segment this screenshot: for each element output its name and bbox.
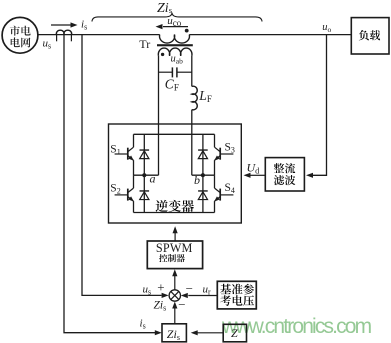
inverter box outline bbox=[109, 124, 242, 223]
svg-text:www.cntronics.com: www.cntronics.com bbox=[221, 315, 372, 338]
wire+arrow summing junction to SPWM bbox=[174, 275, 176, 290]
wire u_s sense down-left side bbox=[82, 35, 162, 296]
brace Z i_s over line bbox=[92, 13, 262, 22]
reference voltage box 基准参考电压 bbox=[217, 281, 256, 309]
arrow u_co (compensation voltage) bbox=[163, 26, 188, 28]
IGBT S4 bbox=[219, 189, 221, 201]
svg-text:is: is bbox=[81, 19, 87, 32]
label 逆变器 (inverter) bbox=[156, 200, 168, 212]
arrow into rectifier right side bbox=[306, 173, 313, 178]
svg-text:SPWM: SPWM bbox=[156, 241, 193, 255]
wire u_r from reference box bbox=[188, 295, 217, 297]
svg-text:ur: ur bbox=[203, 284, 212, 297]
wire: secondary left leg down to node a bbox=[158, 56, 160, 175]
wire: secondary right leg to filter inductor bbox=[191, 56, 193, 87]
svg-text:S1: S1 bbox=[110, 143, 120, 156]
load box 负载 bbox=[351, 18, 389, 54]
svg-text:+: + bbox=[157, 279, 164, 294]
svg-text:S4: S4 bbox=[225, 182, 235, 195]
arrow i_s into Zi_s block bbox=[155, 330, 162, 335]
svg-text:S2: S2 bbox=[110, 182, 120, 195]
svg-text:a: a bbox=[150, 172, 156, 186]
svg-text:S3: S3 bbox=[225, 141, 235, 154]
svg-text:is: is bbox=[140, 318, 146, 331]
wire: main AC line, source to transformer primary bbox=[38, 34, 160, 36]
polarity dot primary bbox=[185, 29, 189, 33]
arrow SPWM to inverter bbox=[174, 233, 176, 241]
svg-text:uo: uo bbox=[322, 22, 331, 34]
arrow U_d into inverter bbox=[251, 174, 266, 176]
node b junction dot bbox=[201, 173, 205, 177]
arrow Z block to Zi_s block bbox=[198, 332, 224, 334]
transformer Tr primary winding bbox=[160, 35, 190, 43]
svg-text:Z: Z bbox=[231, 326, 238, 340]
IGBT S2 bbox=[127, 189, 129, 201]
svg-text:Zis: Zis bbox=[157, 1, 172, 16]
svg-text:us: us bbox=[43, 38, 52, 51]
wire Zi_s block up to junction bbox=[174, 308, 176, 324]
IGBT S3 bbox=[219, 148, 221, 160]
wire: node a rail bbox=[134, 174, 159, 176]
wire i_s sense down-left side bbox=[64, 35, 156, 333]
AC source 市电电网 bbox=[2, 17, 38, 53]
inductor L_F coil bbox=[192, 86, 197, 110]
svg-text:b: b bbox=[194, 173, 200, 187]
SPWM controller box bbox=[147, 241, 202, 269]
arrow i_s direction on line bbox=[51, 24, 71, 26]
wire: H-bridge top rail bbox=[134, 133, 215, 135]
transformer core bar bbox=[157, 44, 193, 46]
diode D4 antiparallel to S4 bbox=[202, 175, 204, 212]
current transformer pickup bumps bbox=[56, 30, 71, 34]
diode D2 antiparallel to S2 bbox=[143, 175, 145, 212]
wire: node b rail bbox=[192, 174, 215, 176]
wire: C_F branch left bbox=[159, 71, 173, 73]
svg-text:Ud: Ud bbox=[247, 161, 261, 176]
rectifier-filter box 整流滤波 bbox=[265, 158, 304, 191]
gain block Z i_s box bbox=[162, 324, 186, 342]
wire: main AC line, transformer primary to load bbox=[189, 34, 351, 36]
arrow u_s into junction bbox=[162, 293, 169, 298]
svg-text:Zis: Zis bbox=[154, 300, 167, 313]
node a junction dot bbox=[142, 173, 146, 177]
IGBT S1 bbox=[127, 148, 129, 160]
svg-text:Tr: Tr bbox=[139, 37, 150, 51]
polarity dot secondary bbox=[161, 53, 164, 56]
wire: inductor to node b bbox=[191, 110, 193, 176]
wire: C_F branch right bbox=[177, 71, 192, 73]
wire: H-bridge bottom rail bbox=[134, 212, 215, 214]
svg-text:us: us bbox=[143, 284, 152, 297]
svg-text:CF: CF bbox=[165, 76, 179, 92]
wire: u_o tap down to rectifier bbox=[313, 35, 327, 176]
summing junction bbox=[169, 290, 180, 301]
svg-text:Zis: Zis bbox=[167, 327, 180, 342]
svg-text:−: − bbox=[178, 297, 185, 312]
impedance block Z box bbox=[223, 324, 246, 342]
diode D1 antiparallel to S1 bbox=[143, 134, 145, 175]
diode D3 antiparallel to S3 bbox=[202, 134, 204, 175]
svg-text:LF: LF bbox=[198, 88, 212, 104]
capacitor C_F plates bbox=[171, 67, 173, 77]
transformer secondary winding bbox=[158, 48, 192, 56]
